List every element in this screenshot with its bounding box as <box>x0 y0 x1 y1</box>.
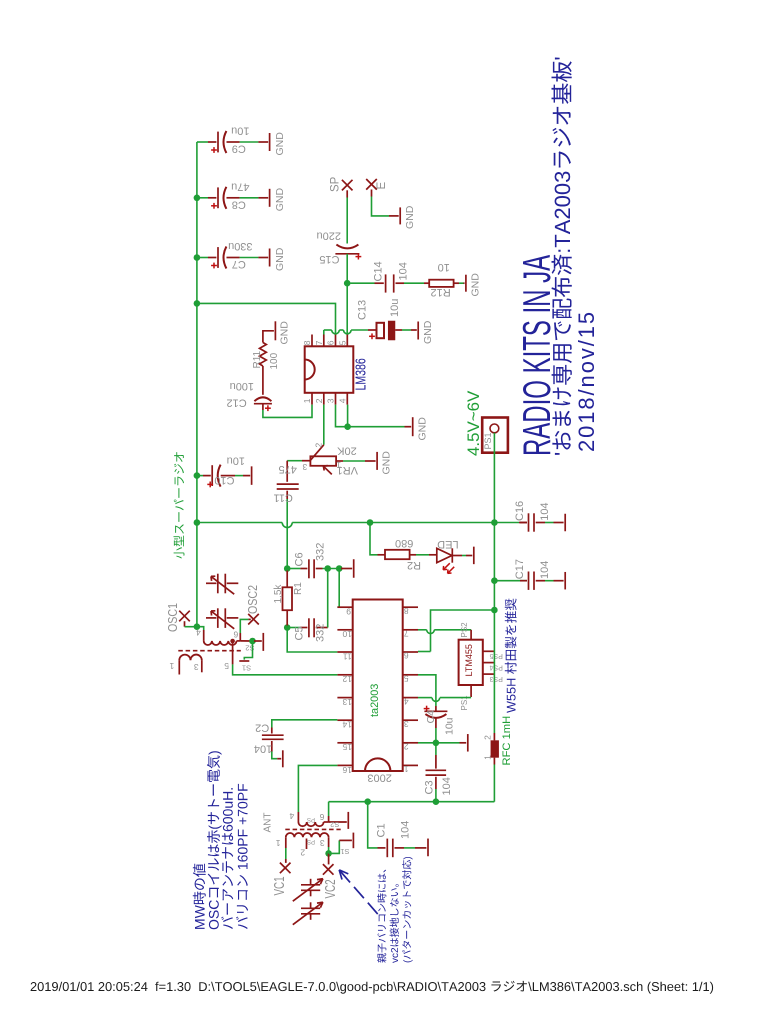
svg-text:R11: R11 <box>252 350 263 368</box>
svg-text:104: 104 <box>539 561 551 579</box>
svg-text:4: 4 <box>289 811 294 821</box>
svg-text:15: 15 <box>342 742 352 752</box>
svg-text:104: 104 <box>397 262 409 280</box>
svg-text:PS: PS <box>307 838 315 844</box>
svg-text:104: 104 <box>400 821 412 839</box>
svg-text:100u: 100u <box>230 380 254 392</box>
svg-text:PS1: PS1 <box>483 432 493 449</box>
svg-text:C16: C16 <box>514 501 526 521</box>
svg-text:C7: C7 <box>232 258 246 270</box>
svg-text:1,5k: 1,5k <box>273 584 284 604</box>
svg-text:100: 100 <box>269 352 280 369</box>
svg-text:C2: C2 <box>255 722 269 734</box>
svg-text:220u: 220u <box>316 230 340 242</box>
svg-text:RFC 1mH: RFC 1mH <box>501 716 513 766</box>
svg-text:7: 7 <box>314 340 324 345</box>
svg-text:C9: C9 <box>232 143 246 155</box>
svg-text:GND: GND <box>278 321 290 345</box>
svg-text:GND: GND <box>404 205 416 229</box>
svg-text:1: 1 <box>169 661 174 671</box>
svg-text:6: 6 <box>233 630 238 640</box>
svg-text:16: 16 <box>342 765 352 775</box>
svg-text:1: 1 <box>404 764 409 774</box>
svg-text:8: 8 <box>404 606 409 616</box>
svg-text:2: 2 <box>314 443 324 448</box>
svg-text:E: E <box>376 182 388 190</box>
svg-text:R2: R2 <box>407 559 421 571</box>
svg-text:2003: 2003 <box>367 772 391 784</box>
svg-text:OSC1: OSC1 <box>165 603 180 632</box>
svg-text:11: 11 <box>343 651 352 661</box>
svg-text:10u: 10u <box>389 299 401 317</box>
svg-text:C8: C8 <box>232 198 246 210</box>
svg-text:GND: GND <box>416 417 428 441</box>
svg-text:6: 6 <box>404 651 409 661</box>
svg-text:GND: GND <box>381 451 393 475</box>
svg-text:475: 475 <box>279 463 297 475</box>
svg-text:3: 3 <box>194 662 199 672</box>
svg-text:3: 3 <box>326 398 336 403</box>
svg-text:3: 3 <box>320 838 325 848</box>
svg-text:3: 3 <box>302 462 307 472</box>
svg-text:4: 4 <box>338 398 348 403</box>
svg-text:104: 104 <box>441 777 453 795</box>
svg-text:3: 3 <box>404 719 409 729</box>
svg-text:LM386: LM386 <box>352 358 369 390</box>
svg-text:10u: 10u <box>231 125 249 137</box>
svg-text:S2: S2 <box>330 820 339 829</box>
svg-text:GND: GND <box>422 320 434 344</box>
svg-text:104: 104 <box>539 502 551 520</box>
svg-text:GND: GND <box>274 132 286 156</box>
svg-text:332: 332 <box>314 543 326 561</box>
svg-text:GND: GND <box>274 188 286 212</box>
svg-text:GND: GND <box>274 247 286 271</box>
svg-text:20K: 20K <box>337 444 357 456</box>
svg-text:47u: 47u <box>231 180 249 192</box>
svg-text:R1: R1 <box>293 582 304 595</box>
svg-text:PS5: PS5 <box>489 652 502 659</box>
svg-text:C12: C12 <box>227 396 247 408</box>
svg-text:13: 13 <box>342 697 352 707</box>
svg-text:6: 6 <box>319 812 324 822</box>
svg-text:C14: C14 <box>373 261 385 281</box>
svg-text:VC1: VC1 <box>271 876 287 895</box>
svg-text:5: 5 <box>404 674 409 684</box>
svg-text:VC2: VC2 <box>322 879 338 898</box>
svg-text:C5: C5 <box>294 626 306 640</box>
svg-text:PS2: PS2 <box>460 622 469 638</box>
svg-text:S1: S1 <box>340 847 349 856</box>
svg-text:2: 2 <box>404 742 409 752</box>
svg-text:C15: C15 <box>319 253 339 265</box>
svg-text:330u: 330u <box>228 240 252 252</box>
svg-text:104: 104 <box>254 743 272 755</box>
svg-text:1: 1 <box>302 398 312 403</box>
svg-text:LTM455: LTM455 <box>464 644 474 676</box>
svg-text:4.5V~6V: 4.5V~6V <box>464 390 483 456</box>
svg-text:C17: C17 <box>514 559 526 579</box>
svg-text:10: 10 <box>342 629 352 639</box>
svg-text:PS: PS <box>307 816 315 822</box>
svg-text:C11: C11 <box>274 492 293 504</box>
svg-text:14: 14 <box>342 720 352 730</box>
svg-text:2: 2 <box>300 847 305 857</box>
svg-text:VR1: VR1 <box>337 464 358 476</box>
svg-text:5: 5 <box>224 661 229 671</box>
svg-text:LED: LED <box>437 538 458 550</box>
svg-text:10: 10 <box>438 261 450 273</box>
svg-text:6: 6 <box>326 340 336 345</box>
svg-text:ANT: ANT <box>262 813 273 833</box>
svg-text:12: 12 <box>342 674 352 684</box>
svg-text:4: 4 <box>196 628 201 638</box>
svg-text:C13: C13 <box>357 300 369 320</box>
svg-text:1: 1 <box>482 755 492 760</box>
svg-text:RADIO KITS IN JA: RADIO KITS IN JA <box>515 255 558 456</box>
svg-text:C4: C4 <box>425 710 437 724</box>
svg-text:332: 332 <box>315 624 327 642</box>
svg-text:GND: GND <box>469 273 481 297</box>
svg-text:10u: 10u <box>227 455 245 467</box>
svg-text:S1: S1 <box>242 663 251 672</box>
svg-text:PS3: PS3 <box>489 675 502 682</box>
svg-text:2: 2 <box>482 735 492 740</box>
svg-text:OSC2: OSC2 <box>245 585 260 614</box>
svg-text:R12: R12 <box>431 286 451 298</box>
svg-text:C1: C1 <box>376 823 388 837</box>
svg-text:PS4: PS4 <box>489 664 502 671</box>
svg-text:10u: 10u <box>443 717 455 735</box>
svg-text:C3: C3 <box>423 780 435 794</box>
svg-text:2: 2 <box>314 398 324 403</box>
svg-text:C6: C6 <box>293 552 305 566</box>
svg-text:680: 680 <box>395 537 413 549</box>
svg-text:ta2003: ta2003 <box>369 684 381 717</box>
svg-text:1: 1 <box>275 838 280 848</box>
svg-text:4: 4 <box>404 696 409 706</box>
svg-text:7: 7 <box>404 629 409 639</box>
svg-text:5: 5 <box>338 340 348 345</box>
svg-text:SP: SP <box>330 176 342 192</box>
svg-text:C10: C10 <box>214 474 234 486</box>
svg-text:2018/nov/15: 2018/nov/15 <box>574 310 599 452</box>
svg-text:8: 8 <box>302 340 312 345</box>
svg-text:9: 9 <box>346 607 351 617</box>
